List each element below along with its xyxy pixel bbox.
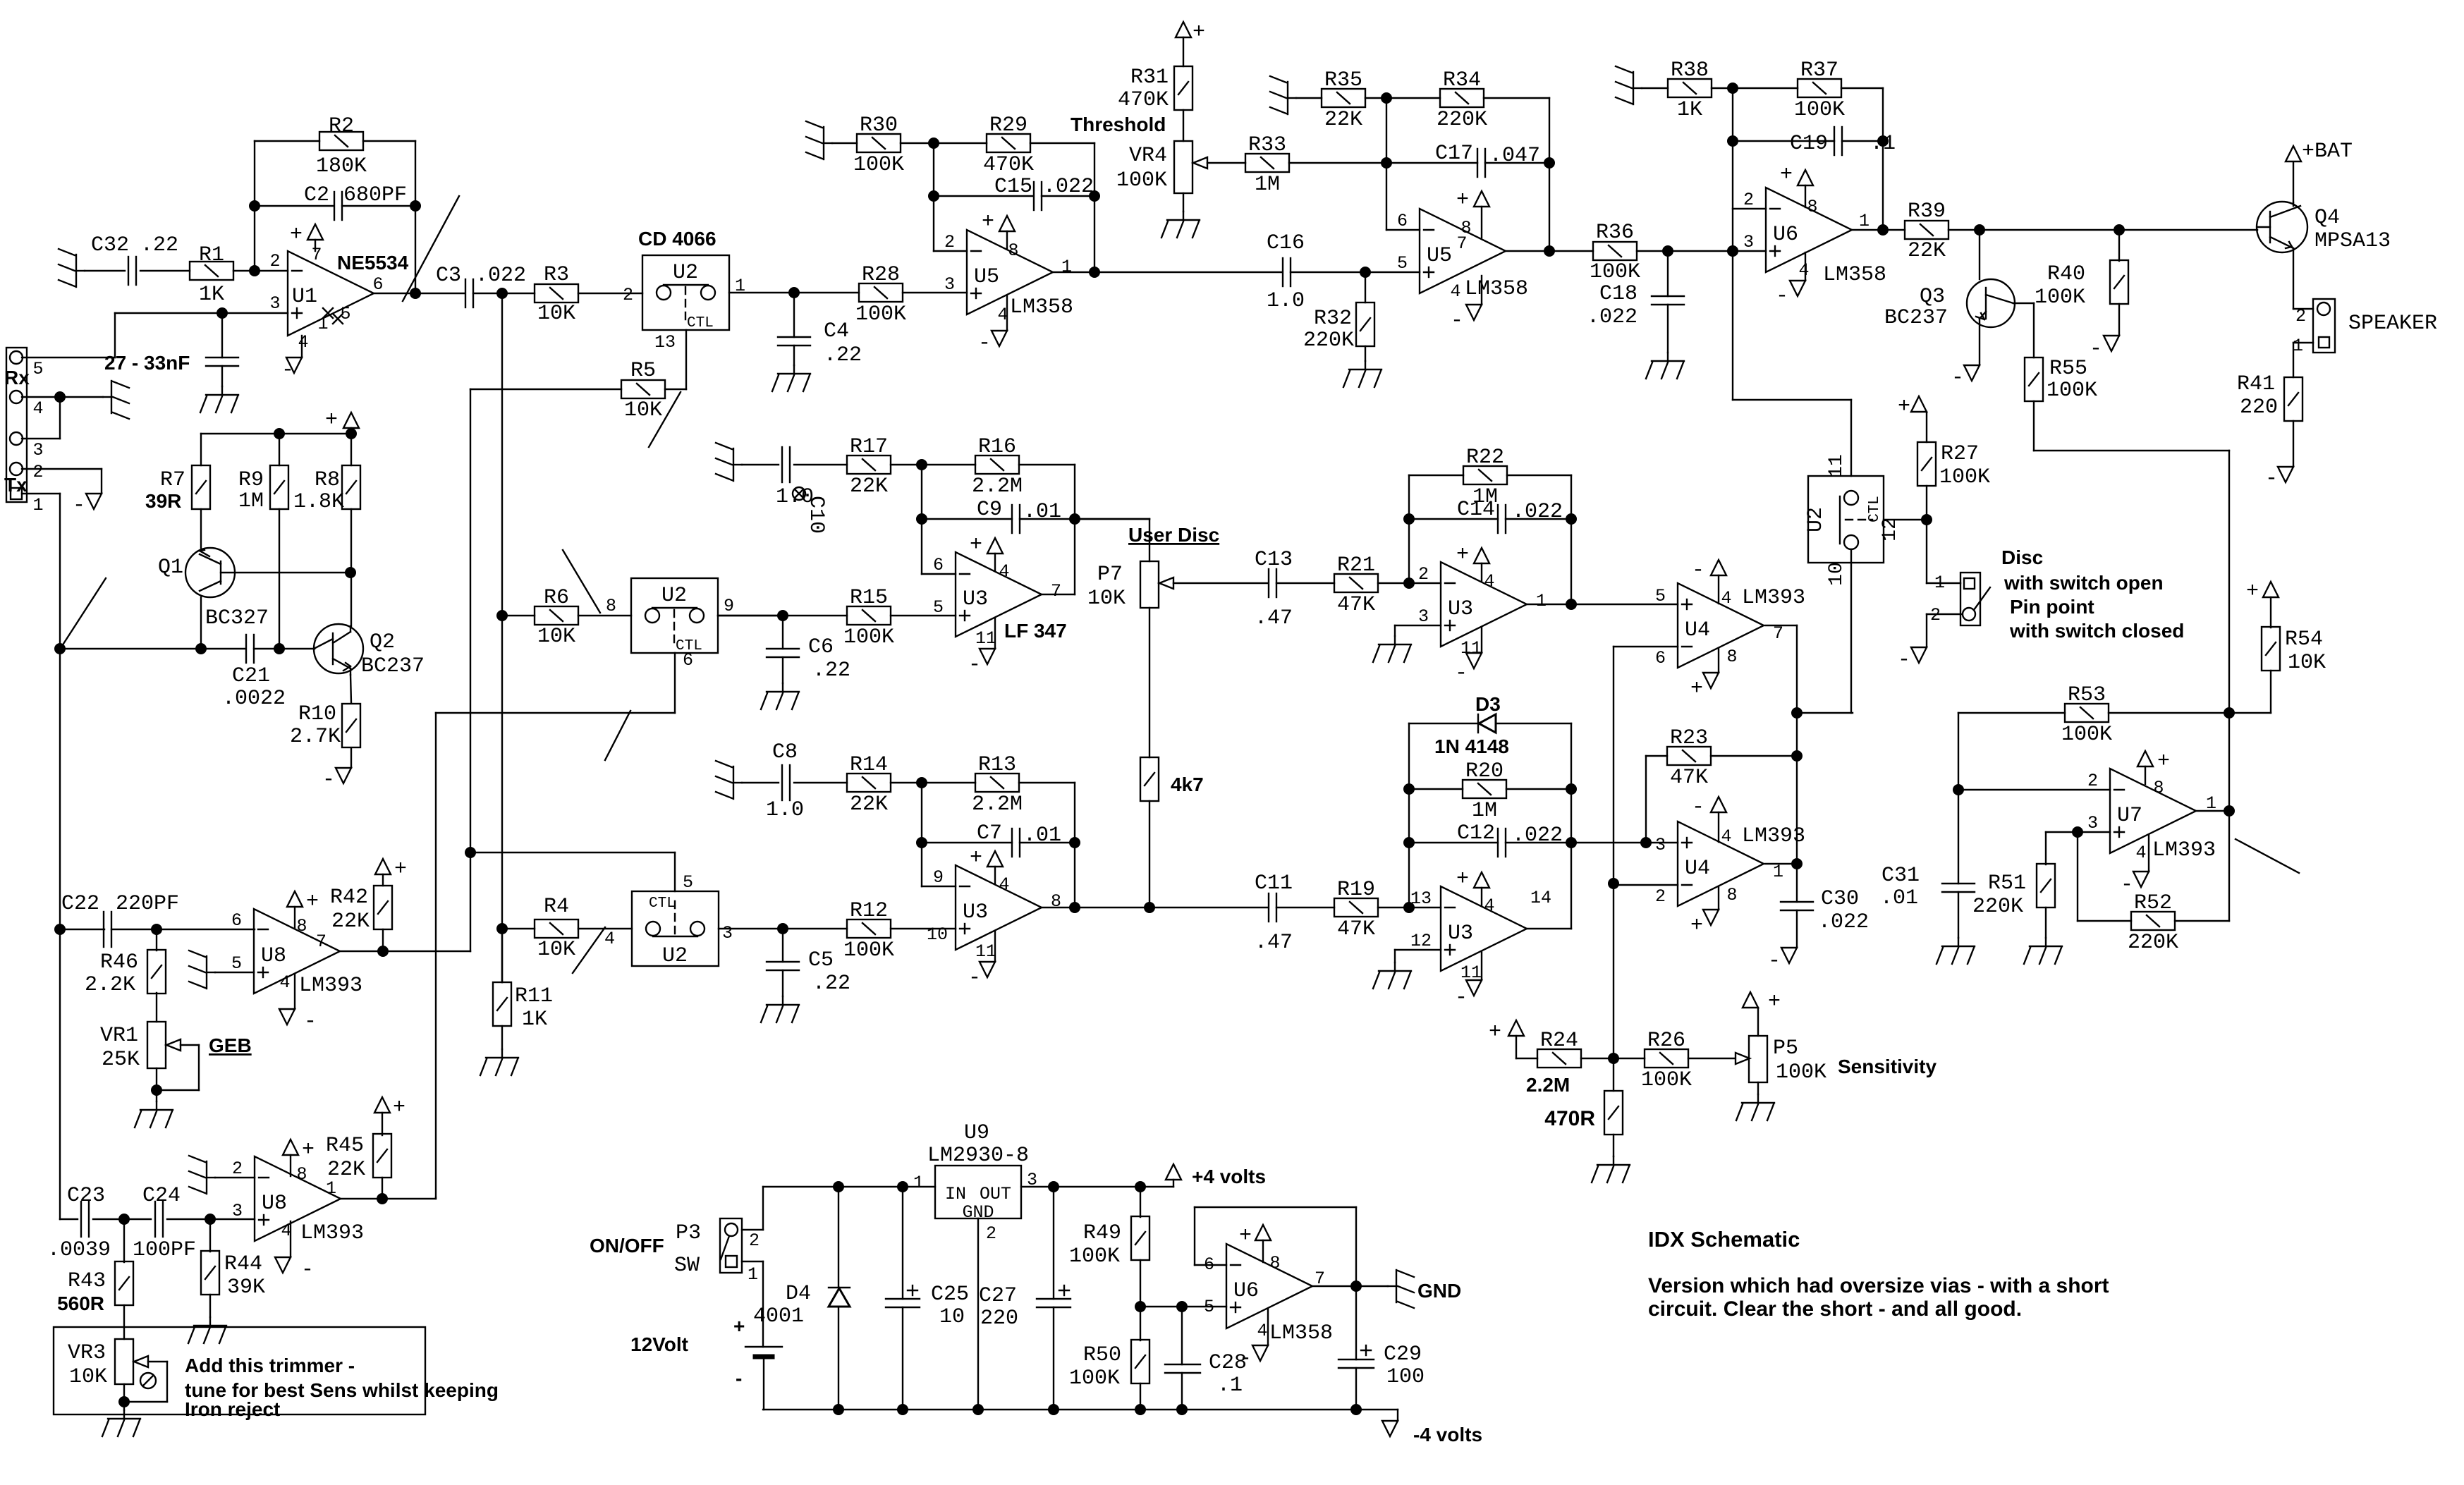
svg-text:100K: 100K bbox=[1939, 465, 1990, 489]
svg-text:Q4: Q4 bbox=[2314, 206, 2340, 230]
svg-text:+: + bbox=[1780, 163, 1793, 187]
svg-text:.047: .047 bbox=[1489, 144, 1540, 168]
svg-text:9: 9 bbox=[933, 867, 944, 888]
svg-text:LM2930-8: LM2930-8 bbox=[927, 1144, 1029, 1168]
svg-text:10K: 10K bbox=[1087, 587, 1126, 611]
svg-text:C22: C22 bbox=[61, 892, 99, 916]
svg-text:.01: .01 bbox=[1880, 886, 1918, 910]
svg-text:8: 8 bbox=[1807, 197, 1817, 217]
svg-text:U5: U5 bbox=[974, 265, 999, 289]
svg-text:1M: 1M bbox=[1255, 173, 1280, 197]
svg-text:C25: C25 bbox=[931, 1283, 969, 1307]
svg-text:C3: C3 bbox=[436, 264, 461, 288]
svg-text:U6: U6 bbox=[1233, 1279, 1259, 1303]
svg-text:14: 14 bbox=[1530, 888, 1551, 908]
svg-text:R27: R27 bbox=[1941, 442, 1979, 466]
svg-text:.0039: .0039 bbox=[47, 1238, 111, 1262]
svg-text:1M: 1M bbox=[238, 489, 264, 513]
svg-text:22K: 22K bbox=[331, 910, 370, 934]
svg-text:OUT: OUT bbox=[980, 1184, 1011, 1204]
svg-text:C13: C13 bbox=[1255, 548, 1293, 572]
svg-text:4: 4 bbox=[2135, 843, 2146, 863]
svg-text:12: 12 bbox=[1879, 518, 1901, 542]
svg-text:Pin point: Pin point bbox=[2010, 596, 2094, 618]
svg-text:-: - bbox=[2265, 467, 2278, 491]
svg-text:R38: R38 bbox=[1671, 59, 1709, 82]
svg-text:11: 11 bbox=[975, 941, 996, 962]
svg-text:100K: 100K bbox=[1116, 169, 1167, 192]
svg-text:with switch closed: with switch closed bbox=[2009, 620, 2184, 642]
svg-text:BC237: BC237 bbox=[361, 654, 425, 678]
svg-text:3: 3 bbox=[232, 1201, 243, 1221]
svg-text:LM393: LM393 bbox=[1742, 586, 1805, 610]
svg-text:8: 8 bbox=[296, 1164, 307, 1185]
svg-text:R52: R52 bbox=[2134, 891, 2172, 915]
svg-text:1N 4148: 1N 4148 bbox=[1434, 735, 1509, 757]
svg-text:-: - bbox=[1776, 284, 1788, 308]
svg-text:6: 6 bbox=[372, 274, 383, 295]
svg-text:LM393: LM393 bbox=[299, 974, 362, 998]
svg-text:CTL: CTL bbox=[649, 896, 676, 912]
svg-text:U1: U1 bbox=[292, 285, 317, 309]
svg-text:10K: 10K bbox=[537, 302, 575, 326]
svg-text:22K: 22K bbox=[1908, 239, 1946, 263]
svg-text:R46: R46 bbox=[100, 951, 138, 974]
svg-text:2: 2 bbox=[1418, 564, 1429, 585]
svg-text:R6: R6 bbox=[544, 586, 569, 610]
svg-text:C7: C7 bbox=[977, 821, 1002, 845]
svg-text:11: 11 bbox=[975, 628, 996, 649]
svg-text:C30: C30 bbox=[1821, 887, 1859, 911]
svg-text:+: + bbox=[733, 1315, 745, 1337]
svg-text:.022: .022 bbox=[1587, 305, 1637, 329]
svg-text:U2: U2 bbox=[673, 261, 698, 285]
svg-text:220K: 220K bbox=[1437, 108, 1487, 132]
svg-text:VR3: VR3 bbox=[68, 1341, 106, 1365]
svg-text:U8: U8 bbox=[261, 944, 286, 968]
svg-text:LF 347: LF 347 bbox=[1004, 620, 1067, 642]
svg-text:13: 13 bbox=[1410, 888, 1432, 909]
svg-text:2.2M: 2.2M bbox=[972, 475, 1023, 499]
svg-text:100K: 100K bbox=[1641, 1068, 1692, 1092]
svg-text:27 - 33nF: 27 - 33nF bbox=[104, 352, 190, 374]
svg-text:.022: .022 bbox=[1818, 910, 1869, 934]
svg-text:R13: R13 bbox=[978, 753, 1016, 777]
svg-text:-: - bbox=[978, 331, 991, 355]
svg-text:+: + bbox=[325, 408, 338, 432]
svg-text:R17: R17 bbox=[850, 435, 888, 459]
svg-text:R26: R26 bbox=[1647, 1029, 1685, 1053]
svg-text:U6: U6 bbox=[1773, 223, 1798, 247]
svg-text:+: + bbox=[1456, 543, 1469, 567]
svg-text:+: + bbox=[393, 1096, 405, 1120]
svg-text:.22: .22 bbox=[812, 972, 850, 996]
svg-text:Version which had oversize via: Version which had oversize vias - with a… bbox=[1648, 1274, 2109, 1297]
svg-text:100K: 100K bbox=[1590, 260, 1640, 284]
svg-text:R15: R15 bbox=[850, 586, 888, 610]
svg-text:22K: 22K bbox=[327, 1158, 365, 1182]
svg-text:R22: R22 bbox=[1466, 446, 1504, 470]
svg-text:6: 6 bbox=[933, 555, 944, 575]
svg-text:C6: C6 bbox=[808, 635, 834, 659]
svg-text:47K: 47K bbox=[1337, 917, 1375, 941]
svg-text:7: 7 bbox=[316, 931, 327, 952]
svg-text:220K: 220K bbox=[1972, 895, 2023, 919]
svg-text:100: 100 bbox=[1386, 1365, 1425, 1389]
svg-text:.47: .47 bbox=[1255, 606, 1293, 630]
svg-text:1: 1 bbox=[32, 495, 43, 515]
svg-text:-: - bbox=[736, 1367, 742, 1389]
svg-text:2: 2 bbox=[986, 1223, 996, 1244]
svg-text:.022: .022 bbox=[1512, 824, 1563, 848]
svg-text:6: 6 bbox=[1397, 211, 1408, 231]
svg-text:4001: 4001 bbox=[753, 1304, 804, 1328]
svg-text:C2: C2 bbox=[304, 183, 329, 207]
svg-text:R41: R41 bbox=[2237, 372, 2275, 396]
svg-text:-: - bbox=[1768, 949, 1781, 973]
svg-text:R29: R29 bbox=[989, 114, 1027, 137]
svg-text:R34: R34 bbox=[1443, 68, 1481, 92]
svg-text:R23: R23 bbox=[1670, 726, 1708, 750]
svg-text:C10: C10 bbox=[804, 496, 828, 534]
svg-text:100K: 100K bbox=[853, 153, 904, 177]
svg-text:C32: C32 bbox=[91, 233, 129, 257]
svg-text:+: + bbox=[290, 223, 303, 247]
svg-text:8: 8 bbox=[1008, 240, 1018, 261]
svg-text:GND: GND bbox=[1417, 1280, 1461, 1302]
svg-text:4: 4 bbox=[1450, 281, 1460, 302]
svg-text:SW: SW bbox=[674, 1254, 700, 1278]
svg-text:+: + bbox=[1768, 990, 1781, 1014]
svg-text:4: 4 bbox=[1484, 571, 1494, 592]
svg-text:2: 2 bbox=[1930, 605, 1941, 625]
svg-text:11: 11 bbox=[1826, 454, 1848, 478]
svg-text:R1: R1 bbox=[199, 243, 224, 267]
svg-text:1: 1 bbox=[913, 1173, 924, 1193]
svg-text:U7: U7 bbox=[2117, 804, 2142, 828]
svg-text:CD 4066: CD 4066 bbox=[638, 228, 716, 250]
svg-text:-: - bbox=[1455, 661, 1468, 685]
svg-text:C12: C12 bbox=[1457, 821, 1495, 845]
svg-text:-: - bbox=[1239, 1347, 1252, 1371]
svg-text:220: 220 bbox=[980, 1307, 1018, 1331]
svg-text:.022: .022 bbox=[1043, 175, 1094, 199]
svg-text:47K: 47K bbox=[1337, 593, 1375, 617]
svg-text:-: - bbox=[304, 1010, 317, 1034]
svg-text:U3: U3 bbox=[963, 587, 988, 611]
svg-text:BC327: BC327 bbox=[205, 606, 269, 630]
svg-text:-: - bbox=[301, 1258, 314, 1282]
svg-text:BC237: BC237 bbox=[1884, 306, 1948, 330]
svg-text:R28: R28 bbox=[862, 263, 900, 287]
svg-text:5: 5 bbox=[1204, 1297, 1214, 1317]
svg-text:5: 5 bbox=[933, 597, 944, 618]
svg-text:100PF: 100PF bbox=[133, 1238, 196, 1262]
svg-text:100K: 100K bbox=[843, 625, 894, 649]
svg-text:-4 volts: -4 volts bbox=[1413, 1424, 1482, 1446]
svg-text:4: 4 bbox=[1484, 896, 1494, 916]
svg-text:8: 8 bbox=[1051, 891, 1061, 912]
svg-text:2: 2 bbox=[1655, 886, 1666, 907]
svg-text:U2: U2 bbox=[661, 584, 687, 608]
svg-text:U2: U2 bbox=[662, 944, 688, 968]
svg-text:R16: R16 bbox=[978, 435, 1016, 459]
svg-text:4: 4 bbox=[1798, 260, 1809, 281]
svg-text:R30: R30 bbox=[860, 114, 898, 137]
svg-text:100K: 100K bbox=[2047, 379, 2097, 403]
svg-text:D3: D3 bbox=[1475, 693, 1501, 715]
svg-text:R33: R33 bbox=[1248, 133, 1286, 157]
svg-text:-: - bbox=[1455, 986, 1468, 1010]
svg-text:6: 6 bbox=[231, 910, 242, 931]
svg-text:10K: 10K bbox=[537, 625, 575, 649]
svg-text:C19: C19 bbox=[1790, 132, 1828, 156]
svg-text:+: + bbox=[1239, 1224, 1252, 1248]
svg-text:7: 7 bbox=[311, 245, 322, 265]
svg-text:2: 2 bbox=[2087, 771, 2098, 791]
svg-text:6: 6 bbox=[1655, 648, 1666, 668]
svg-text:C29: C29 bbox=[1384, 1343, 1422, 1367]
svg-text:22K: 22K bbox=[850, 793, 888, 817]
svg-text:-: - bbox=[968, 966, 981, 990]
svg-text:6: 6 bbox=[683, 650, 693, 671]
svg-text:10K: 10K bbox=[69, 1365, 107, 1389]
svg-text:.022: .022 bbox=[475, 264, 526, 288]
svg-text:R54: R54 bbox=[2285, 628, 2323, 652]
svg-text:P5: P5 bbox=[1773, 1037, 1798, 1061]
svg-text:.01: .01 bbox=[1023, 824, 1061, 848]
svg-text:1: 1 bbox=[1773, 862, 1783, 882]
svg-text:.01: .01 bbox=[1023, 500, 1061, 524]
svg-text:C14: C14 bbox=[1457, 498, 1495, 522]
svg-text:U3: U3 bbox=[1448, 922, 1473, 946]
svg-text:8: 8 bbox=[296, 916, 307, 936]
svg-text:1: 1 bbox=[748, 1264, 758, 1285]
svg-text:2.2M: 2.2M bbox=[1526, 1074, 1570, 1096]
svg-text:Rx: Rx bbox=[4, 367, 30, 389]
svg-text:3: 3 bbox=[1418, 606, 1429, 627]
svg-text:U3: U3 bbox=[963, 900, 988, 924]
svg-text:R32: R32 bbox=[1314, 307, 1352, 331]
svg-text:R9: R9 bbox=[238, 468, 264, 492]
svg-text:User Disc: User Disc bbox=[1128, 524, 1219, 546]
svg-text:SPEAKER: SPEAKER bbox=[2348, 312, 2437, 336]
svg-text:C27: C27 bbox=[979, 1284, 1017, 1308]
svg-text:+: + bbox=[394, 857, 407, 881]
svg-text:Iron reject: Iron reject bbox=[185, 1398, 280, 1420]
svg-text:U9: U9 bbox=[964, 1121, 989, 1145]
svg-text:.1: .1 bbox=[1217, 1374, 1243, 1398]
svg-text:R50: R50 bbox=[1083, 1343, 1121, 1367]
svg-text:7: 7 bbox=[1051, 581, 1061, 601]
svg-text:470K: 470K bbox=[1118, 88, 1169, 112]
svg-text:U3: U3 bbox=[1448, 597, 1473, 621]
svg-text:2: 2 bbox=[623, 285, 633, 305]
svg-text:U5: U5 bbox=[1427, 244, 1452, 268]
svg-text:R35: R35 bbox=[1324, 68, 1362, 92]
svg-text:4: 4 bbox=[604, 929, 615, 949]
svg-text:R7: R7 bbox=[160, 468, 185, 492]
svg-text:P7: P7 bbox=[1097, 563, 1123, 587]
svg-text:2: 2 bbox=[2295, 306, 2306, 326]
svg-text:560R: 560R bbox=[57, 1292, 104, 1314]
svg-text:+: + bbox=[1690, 914, 1703, 938]
svg-text:3: 3 bbox=[1655, 835, 1666, 855]
svg-text:4: 4 bbox=[279, 972, 290, 993]
svg-text:4: 4 bbox=[1257, 1321, 1267, 1341]
svg-text:R39: R39 bbox=[1908, 200, 1946, 224]
svg-text:10K: 10K bbox=[624, 398, 662, 422]
svg-text:3: 3 bbox=[32, 440, 43, 460]
svg-text:VR4: VR4 bbox=[1129, 144, 1167, 168]
svg-text:.0022: .0022 bbox=[222, 687, 286, 711]
svg-text:R4: R4 bbox=[544, 895, 569, 919]
svg-text:.22: .22 bbox=[140, 233, 178, 257]
svg-text:R11: R11 bbox=[515, 984, 553, 1008]
svg-text:.22: .22 bbox=[824, 343, 862, 367]
svg-text:-: - bbox=[281, 358, 294, 382]
svg-text:2: 2 bbox=[232, 1159, 243, 1179]
svg-text:R5: R5 bbox=[630, 359, 656, 383]
svg-text:circuit. Clear the short - an: circuit. Clear the short - and all good. bbox=[1648, 1297, 2022, 1321]
svg-text:100K: 100K bbox=[843, 939, 894, 963]
svg-text:U4: U4 bbox=[1685, 857, 1710, 881]
svg-text:GEB: GEB bbox=[209, 1034, 252, 1056]
svg-text:3: 3 bbox=[2087, 813, 2098, 833]
svg-text:R55: R55 bbox=[2049, 357, 2087, 381]
svg-text:C18: C18 bbox=[1599, 282, 1637, 306]
svg-text:100K: 100K bbox=[1794, 98, 1845, 122]
svg-text:+: + bbox=[2157, 750, 2170, 774]
svg-text:R19: R19 bbox=[1337, 878, 1375, 902]
svg-text:1.0: 1.0 bbox=[1267, 289, 1305, 313]
svg-text:1: 1 bbox=[2293, 336, 2303, 356]
svg-text:C16: C16 bbox=[1267, 231, 1305, 255]
svg-text:47K: 47K bbox=[1670, 766, 1708, 790]
svg-text:10: 10 bbox=[1826, 562, 1848, 586]
svg-text:220K: 220K bbox=[2128, 931, 2178, 955]
svg-text:10: 10 bbox=[927, 924, 948, 945]
svg-text:5: 5 bbox=[683, 872, 693, 893]
svg-text:1K: 1K bbox=[522, 1008, 547, 1032]
svg-text:4: 4 bbox=[999, 561, 1009, 582]
svg-text:100K: 100K bbox=[1069, 1367, 1120, 1391]
svg-text:-: - bbox=[1692, 795, 1704, 819]
svg-text:2: 2 bbox=[269, 251, 280, 271]
svg-text:Q3: Q3 bbox=[1920, 285, 1945, 309]
svg-text:100K: 100K bbox=[855, 302, 906, 326]
svg-text:4k7: 4k7 bbox=[1171, 774, 1204, 795]
svg-text:.47: .47 bbox=[1255, 931, 1293, 955]
svg-text:Q2: Q2 bbox=[370, 630, 395, 654]
svg-text:3: 3 bbox=[269, 293, 280, 314]
svg-text:+: + bbox=[1898, 395, 1910, 419]
svg-text:R10: R10 bbox=[298, 702, 336, 726]
svg-text:2: 2 bbox=[1743, 190, 1754, 210]
svg-text:VR1: VR1 bbox=[100, 1024, 138, 1048]
svg-text:+: + bbox=[302, 1138, 315, 1162]
svg-text:-: - bbox=[1692, 558, 1704, 582]
svg-text:C23: C23 bbox=[67, 1184, 105, 1208]
svg-text:+: + bbox=[970, 533, 982, 557]
svg-text:+: + bbox=[1456, 188, 1469, 212]
svg-text:+: + bbox=[306, 890, 319, 914]
svg-text:.22: .22 bbox=[812, 659, 850, 683]
svg-text:-: - bbox=[2090, 337, 2102, 361]
svg-text:220K: 220K bbox=[1303, 329, 1354, 353]
svg-text:C31: C31 bbox=[1881, 864, 1920, 888]
svg-text:NE5534: NE5534 bbox=[337, 252, 409, 274]
svg-text:R8: R8 bbox=[315, 468, 340, 492]
svg-text:Q1: Q1 bbox=[158, 556, 183, 580]
svg-text:2: 2 bbox=[944, 232, 955, 252]
svg-text:+4 volts: +4 volts bbox=[1192, 1166, 1266, 1187]
svg-text:39K: 39K bbox=[227, 1276, 265, 1300]
svg-text:470R: 470R bbox=[1544, 1107, 1595, 1130]
svg-text:LM358: LM358 bbox=[1465, 277, 1528, 301]
svg-text:LM393: LM393 bbox=[300, 1221, 364, 1245]
svg-text:R21: R21 bbox=[1337, 554, 1375, 577]
svg-text:470K: 470K bbox=[983, 153, 1034, 177]
svg-text:3: 3 bbox=[1743, 232, 1754, 252]
svg-text:R40: R40 bbox=[2047, 262, 2085, 286]
svg-text:R3: R3 bbox=[544, 263, 569, 287]
svg-text:22K: 22K bbox=[1324, 108, 1362, 132]
svg-text:8: 8 bbox=[1726, 885, 1737, 905]
svg-text:R51: R51 bbox=[1988, 872, 2026, 896]
svg-text:8: 8 bbox=[2153, 778, 2164, 798]
svg-text:U2: U2 bbox=[1804, 507, 1828, 532]
svg-text:1: 1 bbox=[1859, 211, 1870, 231]
svg-text:IN: IN bbox=[945, 1184, 966, 1204]
svg-text:Tx: Tx bbox=[4, 474, 28, 496]
svg-text:R45: R45 bbox=[326, 1134, 364, 1158]
svg-text:R36: R36 bbox=[1596, 221, 1634, 245]
svg-text:R42: R42 bbox=[330, 886, 368, 910]
svg-text:22K: 22K bbox=[850, 475, 888, 499]
svg-text:10K: 10K bbox=[537, 938, 575, 962]
svg-text:12: 12 bbox=[1410, 931, 1432, 951]
svg-text:U4: U4 bbox=[1685, 618, 1710, 642]
svg-text:LM358: LM358 bbox=[1010, 295, 1073, 319]
svg-text:with switch open: with switch open bbox=[2003, 572, 2164, 594]
svg-text:4: 4 bbox=[1721, 588, 1731, 609]
svg-text:C5: C5 bbox=[808, 948, 834, 972]
svg-text:5: 5 bbox=[32, 359, 43, 379]
svg-text:10K: 10K bbox=[2288, 651, 2326, 675]
svg-text:+: + bbox=[1690, 677, 1703, 701]
svg-text:1K: 1K bbox=[1677, 98, 1702, 122]
svg-text:100K: 100K bbox=[1776, 1061, 1826, 1084]
svg-text:8: 8 bbox=[1269, 1253, 1280, 1273]
svg-text:+: + bbox=[1489, 1020, 1501, 1044]
svg-text:MPSA13: MPSA13 bbox=[2314, 229, 2391, 253]
svg-text:C17: C17 bbox=[1435, 142, 1473, 166]
svg-text:25K: 25K bbox=[102, 1048, 140, 1072]
svg-text:100K: 100K bbox=[1069, 1245, 1120, 1269]
svg-text:-: - bbox=[968, 653, 981, 677]
svg-text:4: 4 bbox=[1721, 826, 1731, 847]
svg-text:5: 5 bbox=[1397, 253, 1408, 274]
svg-text:5: 5 bbox=[231, 953, 242, 974]
svg-text:2.7K: 2.7K bbox=[290, 725, 341, 749]
svg-text:C9: C9 bbox=[977, 498, 1002, 522]
svg-text:-: - bbox=[73, 494, 85, 518]
svg-text:ON/OFF: ON/OFF bbox=[590, 1235, 664, 1257]
svg-text:LM393: LM393 bbox=[2152, 838, 2216, 862]
svg-text:7: 7 bbox=[1456, 233, 1467, 254]
svg-text:-: - bbox=[1451, 309, 1463, 333]
